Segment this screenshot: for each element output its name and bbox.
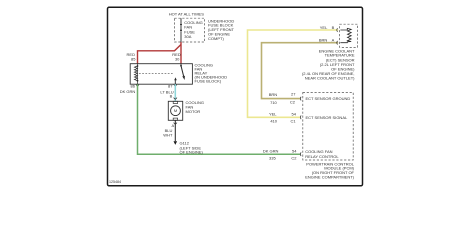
thermistor element [340,28,351,42]
svg-text:710: 710 [270,100,277,105]
svg-text:B: B [170,94,173,99]
svg-text:54: 54 [292,149,297,154]
svg-text:YEL: YEL [269,111,277,116]
sensor connector at pin B [336,28,339,32]
ECT sensor dashed box [340,24,358,47]
svg-text:87: 87 [168,84,173,89]
PCM connector at ECT sensor ground [299,97,302,101]
svg-text:A: A [332,38,335,43]
wire BLU WHT from motor A to ground G112 [174,120,176,141]
svg-text:M: M [174,108,177,113]
label: G112 (LEFT SIDE OF ENGINE) [180,141,204,155]
svg-text:DK GRN: DK GRN [120,89,136,94]
svg-text:BRN: BRN [269,92,278,97]
inline connector at motor B [174,98,177,100]
svg-text:ECT SENSOR GROUND: ECT SENSOR GROUND [306,96,351,101]
label: COOLING FAN MOTOR [186,100,204,114]
ground G112 [174,141,178,145]
svg-text:125484: 125484 [109,180,121,184]
inline connector at motor A [174,123,177,125]
label: UNDERHOOD FUSE BLOCK [208,18,234,41]
svg-text:BRN: BRN [319,38,328,43]
svg-text:MOTOR: MOTOR [186,109,201,114]
svg-text:OF ENGINE): OF ENGINE) [180,149,204,154]
svg-text:30A: 30A [184,34,191,39]
PCM connector at cooling fan relay control [299,152,302,156]
pin socket at relay 87 [174,85,177,87]
svg-text:ECT SENSOR SIGNAL: ECT SENSOR SIGNAL [306,115,348,120]
relay switch contacts 30/87 [175,64,183,84]
wire YEL from ECT sensor B to PCM ECT sensor signal [248,30,339,117]
svg-text:335: 335 [269,156,276,161]
wire LT BLU from relay 87 to motor B [174,84,176,101]
wire BRN from ECT sensor A to PCM ECT sensor ground [262,43,339,99]
svg-text:HOT AT ALL TIMES: HOT AT ALL TIMES [169,12,204,17]
svg-text:DK GRN: DK GRN [263,149,279,154]
label: ENGINE COOLANT TEMPERATURE (ECT) SENSOR [302,48,355,80]
svg-text:YEL: YEL [320,25,328,30]
wire RED from fuse to relay pin 30 [180,42,182,64]
svg-text:85: 85 [131,56,136,61]
pin socket at relay 86 [136,85,139,87]
PCM connector at ECT sensor signal [299,116,302,120]
svg-text:C1: C1 [290,118,296,123]
relay actuation dashed link [139,72,174,74]
svg-text:NEAR COOLANT OUTLET): NEAR COOLANT OUTLET) [305,76,355,81]
svg-text:C2: C2 [290,100,296,105]
svg-text:ENGINE COMPARTMENT): ENGINE COMPARTMENT) [305,174,354,179]
fuse F: COOLING FAN FUSE 30A [180,18,182,42]
sensor connector at pin A [336,41,339,45]
fuse value label [184,20,202,39]
svg-text:FUSE BLOCK): FUSE BLOCK) [195,78,222,83]
svg-text:410: 410 [270,118,277,123]
relay coil [134,64,137,84]
svg-text:WHT: WHT [163,132,173,137]
label: POWERTRAIN CONTROL MODULE (PCM) [305,161,355,179]
PCM dashed box [303,93,353,161]
svg-text:RELAY CONTROL: RELAY CONTROL [305,154,339,159]
svg-text:B: B [332,25,335,30]
wire RED branch from junction to relay pin 85 [138,45,182,64]
svg-text:C2: C2 [291,156,297,161]
relay K: COOLING FAN RELAY box [130,64,192,84]
svg-text:54: 54 [292,111,297,116]
svg-text:27: 27 [291,92,296,97]
underhood fuse block dashed box [175,18,205,42]
diagram frame [108,7,363,186]
svg-text:30: 30 [175,56,180,61]
wire DK GRN from relay 86 to PCM cooling fan relay control [138,84,301,154]
motor M1: COOLING FAN MOTOR [168,101,182,120]
svg-text:COMPT): COMPT) [208,36,224,41]
label: COOLING FAN RELAY (IN UNDERHOOD FUSE BLOCK) [195,63,228,84]
